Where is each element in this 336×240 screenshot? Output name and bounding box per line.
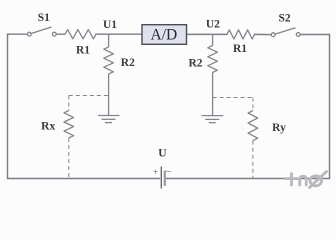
wire R2 right to ground [212, 73, 214, 116]
wire S2 to right corner [300, 34, 329, 36]
svg-text:R1: R1 [233, 43, 247, 55]
wire A/D out to node U2 and on to R1 right [187, 33, 228, 35]
wire U1 stem down to R2 [108, 34, 110, 47]
wire top-left from left corner to switch S1 [8, 33, 28, 35]
battery U plate long [160, 167, 162, 189]
resistor R1 (left) [65, 30, 96, 39]
svg-text:Ry: Ry [272, 122, 286, 134]
svg-text:−: − [166, 167, 172, 178]
wire S1 to R1 [56, 33, 65, 35]
battery U plate short [164, 171, 166, 187]
wire bottom left (to battery) [8, 178, 160, 180]
wire R1 right to S2 [255, 33, 272, 35]
resistor R2 (left) [104, 47, 114, 74]
resistor R1 (right) [227, 30, 255, 39]
switch S1 [27, 27, 56, 36]
svg-text:Rx: Rx [41, 120, 55, 132]
svg-text:S2: S2 [279, 13, 291, 25]
dashed link Ry vertical lower [252, 141, 254, 179]
svg-text:R1: R1 [76, 44, 90, 56]
dashed link Ry top horizontal [213, 97, 253, 99]
resistor R2 (right) [208, 46, 218, 73]
resistor Ry [248, 111, 258, 141]
A/D converter box U [142, 25, 187, 45]
wire left vertical [7, 34, 9, 178]
dashed link Rx top horizontal [69, 95, 109, 97]
wire R1 to node U1 [96, 33, 142, 35]
wire R2 left to ground [108, 74, 110, 116]
wire U2 stem down to R2 [212, 34, 214, 45]
wire bottom right (from battery) [166, 178, 330, 180]
watermark logo [286, 172, 327, 188]
dashed link Rx vertical upper [68, 96, 70, 111]
dashed link Rx vertical lower [68, 138, 70, 179]
svg-text:S1: S1 [38, 12, 50, 24]
dashed link Ry vertical upper [252, 98, 254, 111]
switch S2 [271, 28, 300, 37]
svg-text:R2: R2 [121, 57, 135, 69]
svg-text:+: + [153, 167, 158, 177]
ground (left) [98, 116, 120, 123]
ground (right) [202, 116, 224, 123]
svg-text:U2: U2 [206, 19, 220, 31]
wire right vertical [329, 35, 331, 179]
svg-text:A/D: A/D [151, 26, 178, 43]
svg-text:U1: U1 [103, 19, 117, 31]
svg-text:R2: R2 [188, 57, 202, 69]
svg-text:U: U [158, 147, 167, 159]
resistor Rx [64, 111, 74, 139]
